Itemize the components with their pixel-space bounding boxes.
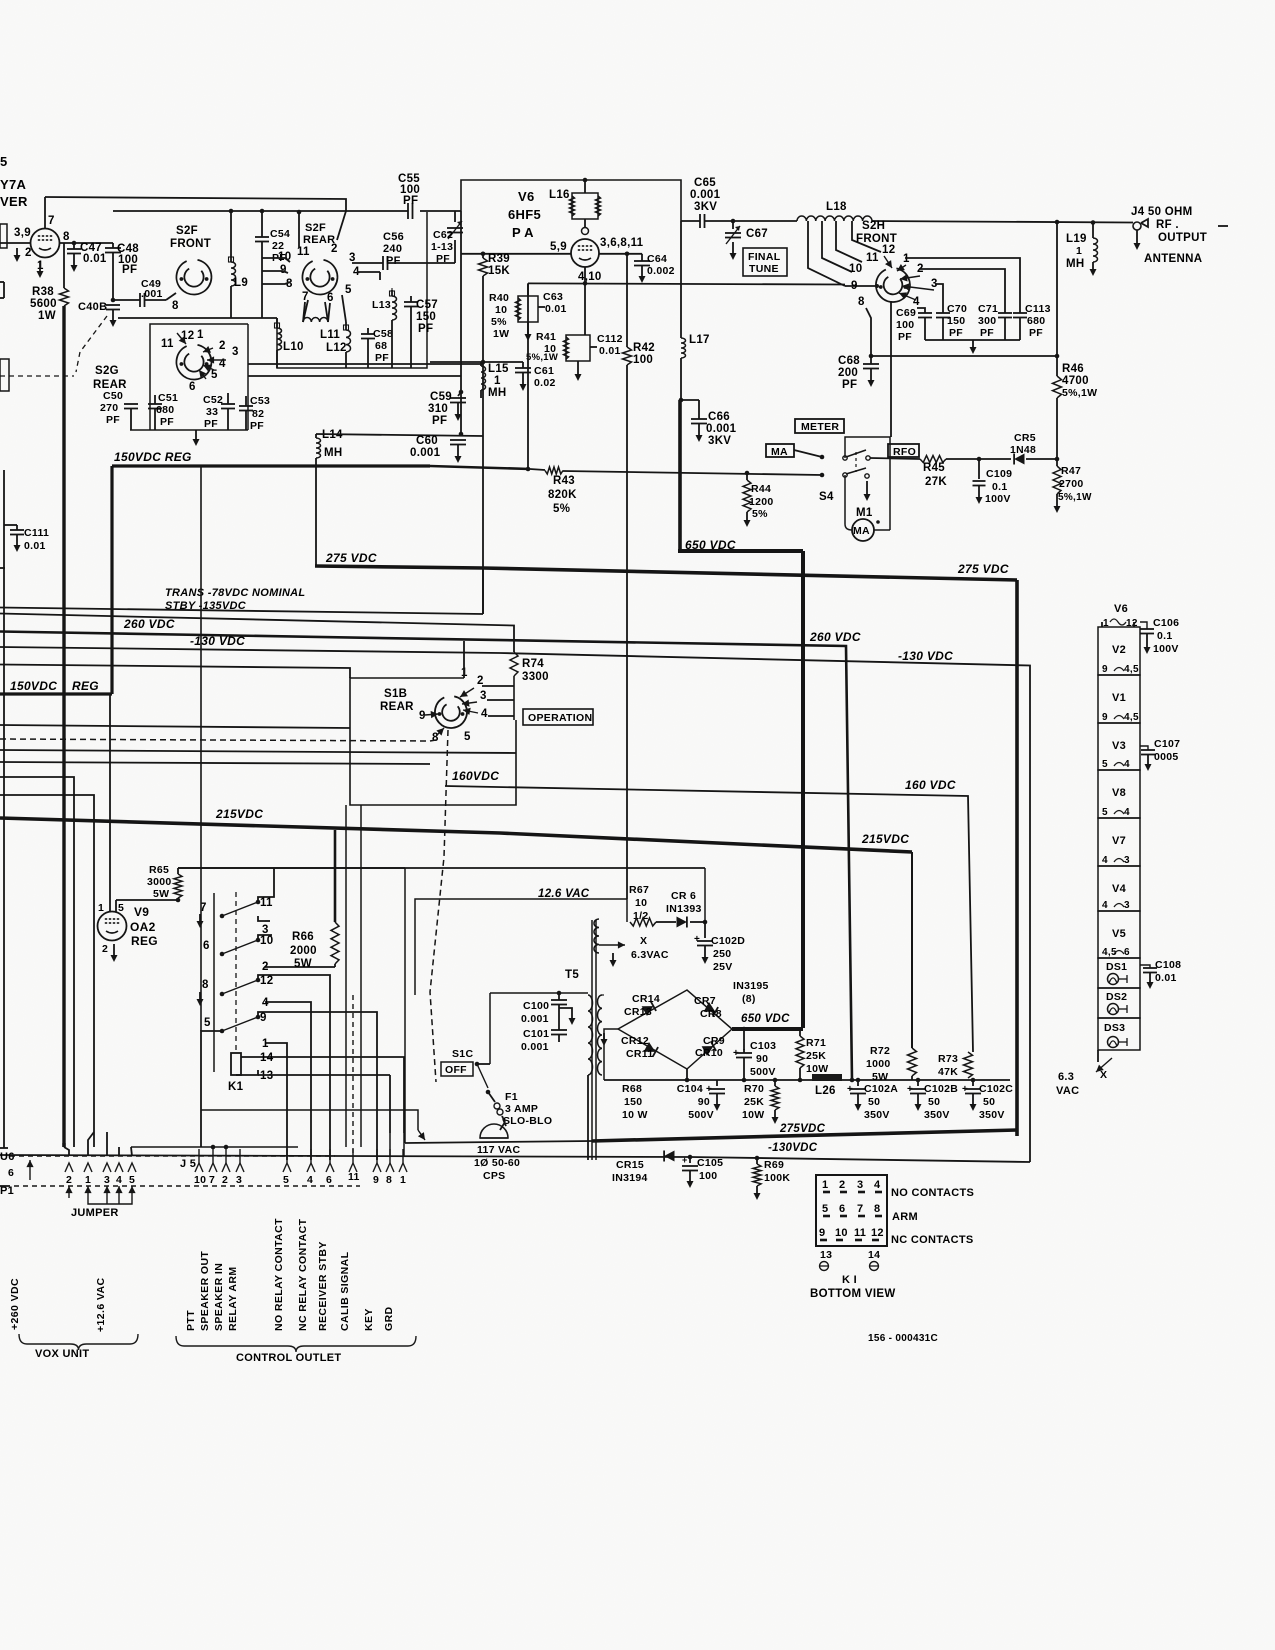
svg-text:100V: 100V — [1153, 643, 1179, 655]
wire 150VDC sense through R43 to lower contact — [530, 469, 545, 470]
svg-text:9: 9 — [819, 1227, 825, 1239]
tube V6 6HF5 PA — [571, 239, 599, 267]
wire bus line 7 — [0, 750, 516, 753]
svg-text:PF: PF — [375, 352, 389, 364]
wire blade5 to J5 pin 10 — [201, 1031, 222, 1147]
svg-text:150VDC REG: 150VDC REG — [114, 450, 192, 464]
svg-text:C50: C50 — [103, 390, 123, 402]
resistor R39 15K — [482, 254, 484, 258]
wire - second bottom edge — [231, 317, 277, 319]
svg-text:6: 6 — [1124, 947, 1130, 958]
svg-text:S2F: S2F — [176, 225, 198, 237]
capacitor C54 22PF — [261, 211, 263, 237]
resistor R73 47K — [964, 1052, 973, 1078]
svg-text:1: 1 — [822, 1179, 828, 1191]
svg-text:5%: 5% — [752, 508, 768, 520]
ground arrow cap bank — [972, 340, 974, 348]
resistor R72 1000 5W — [908, 1048, 917, 1076]
svg-text:5%,1W: 5%,1W — [526, 352, 558, 363]
capacitor C71 300PF — [998, 312, 1012, 314]
capacitor C104 90 500V — [716, 1080, 718, 1086]
capacitor C57 150PF — [410, 296, 412, 302]
svg-text:15K: 15K — [488, 265, 510, 277]
svg-text:C108: C108 — [1155, 959, 1181, 971]
svg-text:L18: L18 — [826, 201, 847, 213]
svg-text:PF: PF — [1029, 327, 1043, 339]
wire C68 node to R46 — [871, 355, 1057, 357]
svg-text:C113: C113 — [1025, 303, 1051, 315]
svg-text:C54: C54 — [270, 228, 290, 240]
svg-text:CR13: CR13 — [624, 1006, 652, 1018]
svg-text:PF: PF — [204, 418, 218, 430]
svg-text:PTT: PTT — [185, 1310, 197, 1331]
svg-text:R70: R70 — [744, 1083, 764, 1095]
svg-text:(8): (8) — [742, 993, 756, 1005]
svg-text:V1: V1 — [1112, 692, 1126, 704]
svg-text:5%: 5% — [553, 503, 570, 515]
svg-text:V3: V3 — [1112, 740, 1126, 752]
svg-text:10 W: 10 W — [622, 1109, 648, 1121]
svg-text:7: 7 — [48, 215, 55, 227]
svg-text:C102A: C102A — [864, 1083, 898, 1095]
svg-text:X: X — [1100, 1069, 1107, 1081]
svg-text:FRONT: FRONT — [170, 238, 211, 250]
svg-text:3 AMP: 3 AMP — [505, 1103, 538, 1115]
wire 150VDC REG lower-left stub — [0, 692, 112, 695]
svg-text:5: 5 — [822, 1203, 828, 1215]
svg-text:PF: PF — [432, 415, 447, 427]
svg-text:100: 100 — [896, 319, 914, 331]
svg-text:1N48: 1N48 — [1010, 445, 1036, 456]
wire - left edge to tube grid — [0, 242, 30, 244]
capacitor C48 100PF — [112, 243, 114, 248]
svg-text:50: 50 — [983, 1096, 995, 1108]
box around V6 PA stage — [461, 180, 681, 221]
wire - cathode branch down to R40 — [527, 283, 529, 296]
svg-text:10W: 10W — [742, 1109, 765, 1121]
svg-text:4: 4 — [1102, 900, 1108, 911]
transformer T5 secondary 6.3V winding — [594, 919, 599, 953]
svg-text:1: 1 — [262, 1038, 269, 1050]
svg-text:10: 10 — [849, 263, 862, 275]
svg-text:-130 VDC: -130 VDC — [898, 649, 953, 663]
svg-text:RF .: RF . — [1156, 219, 1179, 231]
svg-text:NO CONTACTS: NO CONTACTS — [891, 1187, 974, 1199]
capacitor C60 0.001 — [459, 432, 464, 437]
VOX UNIT brace — [19, 1334, 138, 1350]
svg-text:R68: R68 — [622, 1083, 642, 1095]
svg-text:4700: 4700 — [1062, 375, 1089, 387]
svg-text:+260 VDC: +260 VDC — [9, 1278, 21, 1330]
boxed label FINAL TUNE — [743, 248, 787, 276]
pin 7 lead — [44, 197, 46, 228]
variable capacitor C62 1-13PF — [447, 227, 463, 229]
svg-text:C103: C103 — [750, 1040, 776, 1052]
svg-text:V6: V6 — [1114, 603, 1128, 615]
svg-text:13: 13 — [260, 1070, 273, 1082]
wire bundle corner to J5 — [131, 1146, 298, 1148]
svg-text:300: 300 — [978, 315, 996, 327]
rotary switch S2H FRONT — [876, 268, 910, 302]
svg-text:0.1: 0.1 — [1157, 630, 1173, 642]
relay pin 13 wire — [236, 1070, 258, 1075]
svg-text:OPERATION: OPERATION — [528, 712, 592, 724]
resistor R66 2000 5W — [331, 922, 339, 964]
resistor R65 3000 5W — [174, 874, 182, 898]
rotary switch S2F FRONT — [176, 260, 211, 295]
svg-text:5: 5 — [464, 731, 471, 743]
svg-text:MA: MA — [853, 525, 870, 537]
svg-text:9: 9 — [260, 1012, 267, 1024]
svg-text:L26: L26 — [815, 1085, 836, 1097]
jumper bracket — [88, 1198, 132, 1204]
svg-text:3: 3 — [104, 1174, 110, 1186]
svg-text:0005: 0005 — [1154, 751, 1179, 763]
svg-text:S2G: S2G — [95, 365, 119, 377]
wires pins 2,3,4 to right vertical — [482, 685, 514, 687]
svg-text:MH: MH — [1066, 258, 1085, 270]
S2H pin arrows — [884, 256, 892, 268]
svg-text:0.001: 0.001 — [706, 423, 737, 435]
resistor R42 100 — [623, 347, 632, 365]
diode CR6 1N393 — [662, 921, 676, 923]
svg-text:CR8: CR8 — [700, 1008, 722, 1020]
svg-text:MA: MA — [771, 446, 788, 458]
svg-text:11: 11 — [854, 1227, 866, 1239]
svg-text:L16: L16 — [549, 189, 570, 201]
capacitor C102A 50 350V — [857, 1080, 859, 1086]
svg-text:C68: C68 — [838, 355, 860, 367]
svg-text:CR12: CR12 — [621, 1035, 649, 1047]
svg-text:C66: C66 — [708, 411, 730, 423]
svg-text:8: 8 — [202, 979, 209, 991]
svg-text:4: 4 — [1102, 855, 1108, 866]
capacitor C59 310PF — [459, 390, 464, 395]
wire from S2G pins to right — [248, 363, 483, 365]
svg-text:680: 680 — [1027, 315, 1045, 327]
svg-text:8: 8 — [874, 1203, 880, 1215]
svg-text:10: 10 — [495, 304, 507, 316]
svg-text:0.001: 0.001 — [521, 1013, 549, 1025]
svg-text:5W: 5W — [153, 888, 169, 900]
capacitor C107 0.005 — [1140, 746, 1148, 750]
svg-text:68: 68 — [375, 340, 387, 352]
svg-text:SPEAKER IN: SPEAKER IN — [213, 1263, 225, 1331]
svg-text:L15: L15 — [488, 363, 509, 375]
wire bridge left to transformer — [604, 1029, 618, 1080]
svg-text:V4: V4 — [1112, 883, 1127, 895]
wire - V6 box right edge down to 650VDC elbow — [680, 221, 682, 338]
svg-text:C69: C69 — [896, 307, 916, 319]
svg-text:2000: 2000 — [290, 945, 317, 957]
relay K1 bottom view box — [816, 1175, 887, 1246]
svg-text:0.001: 0.001 — [690, 189, 721, 201]
svg-text:CONTROL OUTLET: CONTROL OUTLET — [236, 1352, 341, 1364]
svg-text:4: 4 — [262, 997, 269, 1009]
svg-text:6: 6 — [327, 292, 334, 304]
switch S4 frame — [845, 437, 890, 519]
svg-text:4: 4 — [307, 1174, 313, 1186]
wire below DS3 with 6.3VAC — [1097, 1050, 1099, 1062]
svg-text:+: + — [682, 1155, 688, 1165]
svg-text:L9: L9 — [234, 277, 248, 289]
svg-text:3: 3 — [857, 1179, 863, 1191]
svg-text:1000: 1000 — [866, 1058, 891, 1070]
svg-text:R39: R39 — [488, 253, 510, 265]
svg-text:RFO: RFO — [893, 446, 916, 458]
wire V9 to R65 node — [116, 899, 178, 901]
dashed wire pin5 down to S1C — [430, 730, 448, 1082]
svg-text:TUNE: TUNE — [749, 263, 779, 275]
svg-text:260 VDC: 260 VDC — [809, 630, 861, 644]
svg-text:8: 8 — [172, 300, 179, 312]
svg-text:ANTENNA: ANTENNA — [1144, 253, 1202, 265]
svg-text:1: 1 — [400, 1174, 406, 1186]
capacitor C64 0.002 — [641, 254, 643, 261]
capacitor C47 0.01 with ground — [72, 241, 77, 246]
svg-text:R38: R38 — [32, 286, 54, 298]
diode CR15 1N3194 — [664, 1151, 674, 1162]
svg-text:C104: C104 — [677, 1083, 703, 1095]
resistor R67 — [630, 918, 656, 926]
svg-text:650 VDC: 650 VDC — [741, 1013, 790, 1025]
svg-text:9: 9 — [419, 710, 426, 722]
svg-text:0.02: 0.02 — [534, 377, 556, 389]
svg-text:IN3194: IN3194 — [612, 1172, 648, 1184]
svg-text:JUMPER: JUMPER — [71, 1207, 119, 1219]
relay pin 10 — [258, 935, 272, 940]
transformer T5 primary winding — [588, 995, 593, 1075]
wire C56 to C62 node — [388, 262, 456, 264]
inductor L10 — [276, 318, 278, 328]
svg-text:C71: C71 — [978, 303, 998, 315]
wire pin3 to C70 — [935, 284, 943, 313]
svg-text:+12.6 VAC: +12.6 VAC — [95, 1278, 107, 1332]
svg-text:4: 4 — [874, 1179, 881, 1191]
svg-text:10: 10 — [635, 897, 647, 909]
svg-text:OUTPUT: OUTPUT — [1158, 232, 1207, 244]
tube V5 heater box — [1098, 911, 1140, 958]
svg-text:12: 12 — [871, 1227, 884, 1239]
svg-text:215VDC: 215VDC — [861, 832, 909, 846]
svg-text:J 5: J 5 — [180, 1158, 196, 1170]
svg-text:C59: C59 — [430, 391, 452, 403]
wire R45 to CR5 — [946, 458, 1011, 460]
VOX pin leads from buses — [62, 1143, 65, 1147]
wire pin 1 up to bus — [463, 641, 465, 678]
capacitor C65 0.001 3KV in line — [699, 214, 701, 228]
boxed label MA — [766, 444, 794, 457]
svg-text:3: 3 — [1124, 855, 1130, 866]
svg-text:PF: PF — [949, 327, 963, 339]
svg-text:S1C: S1C — [452, 1048, 473, 1060]
resistor R69 100K — [755, 1156, 760, 1161]
svg-text:NC CONTACTS: NC CONTACTS — [891, 1234, 974, 1246]
inductor L11 under rotary — [303, 318, 328, 323]
svg-text:PF: PF — [122, 264, 137, 276]
svg-text:10: 10 — [260, 935, 273, 947]
svg-text:25K: 25K — [744, 1096, 764, 1108]
wires from S2F rear pins 5,6,7 down — [342, 295, 346, 322]
wire M1 leads — [844, 475, 846, 524]
svg-text:P A: P A — [512, 225, 534, 240]
svg-text:47K: 47K — [938, 1066, 958, 1078]
svg-text:NC RELAY CONTACT: NC RELAY CONTACT — [297, 1218, 309, 1331]
svg-text:0.001: 0.001 — [410, 447, 441, 459]
svg-text:F1: F1 — [505, 1091, 518, 1103]
wire bus line 10 — [0, 795, 94, 1147]
capacitor C56 240PF — [382, 256, 384, 270]
svg-text:R74: R74 — [522, 658, 544, 670]
svg-text:RECEIVER STBY: RECEIVER STBY — [317, 1241, 329, 1331]
wire - pin 8 node — [60, 242, 113, 244]
svg-text:5,9: 5,9 — [550, 241, 567, 253]
svg-text:R69: R69 — [764, 1159, 784, 1171]
resistor R71 25K 10W — [799, 1028, 801, 1036]
svg-text:MH: MH — [488, 387, 507, 399]
svg-text:C102B: C102B — [924, 1083, 958, 1095]
inductor L12 — [345, 322, 347, 330]
svg-text:100V: 100V — [985, 493, 1011, 505]
svg-text:0.01: 0.01 — [1155, 972, 1177, 984]
svg-text:V6: V6 — [518, 189, 535, 204]
svg-text:DS3: DS3 — [1104, 1022, 1125, 1034]
svg-text:2: 2 — [66, 1174, 72, 1186]
relay armature dashed — [235, 892, 237, 1050]
svg-text:5: 5 — [1102, 759, 1108, 770]
hook wires pins 8,9,10 — [262, 258, 290, 262]
svg-text:L19: L19 — [1066, 233, 1087, 245]
svg-text:12: 12 — [882, 244, 895, 256]
svg-text:0.01: 0.01 — [83, 253, 107, 265]
rectifier bridge CR7-CR14 — [618, 990, 732, 1069]
inductor L18 — [797, 216, 872, 221]
transformer T5 HV secondary winding — [597, 995, 602, 1075]
svg-text:L10: L10 — [283, 341, 304, 353]
svg-text:CR10: CR10 — [695, 1047, 723, 1059]
capacitor C51 680PF — [154, 408, 156, 430]
wire pin8 down to C68 node — [866, 308, 871, 356]
svg-text:C57: C57 — [416, 299, 438, 311]
svg-text:1W: 1W — [493, 328, 509, 340]
svg-text:500V: 500V — [750, 1066, 776, 1078]
capacitor C108 0.01 — [1140, 965, 1150, 968]
svg-text:V7: V7 — [1112, 835, 1126, 847]
svg-text:156 - 000431C: 156 - 000431C — [868, 1333, 938, 1344]
svg-text:L13: L13 — [372, 299, 391, 311]
main filter rail — [604, 1079, 1010, 1081]
transformer primary right leads — [587, 1075, 589, 1160]
resistor R74 3300 on S1B feed — [510, 652, 518, 676]
svg-text:6.3VAC: 6.3VAC — [631, 949, 669, 961]
svg-text:9: 9 — [851, 280, 858, 292]
svg-text:2: 2 — [262, 961, 269, 973]
svg-text:3KV: 3KV — [694, 201, 717, 213]
svg-text:PF: PF — [403, 195, 418, 207]
wire cathode sense down to S4 frame — [890, 301, 892, 437]
svg-text:5600: 5600 — [30, 298, 57, 310]
svg-text:150: 150 — [416, 311, 436, 323]
svg-text:10: 10 — [194, 1174, 206, 1186]
svg-text:0.01: 0.01 — [24, 540, 46, 552]
CONTROL OUTLET brace — [176, 1336, 416, 1352]
svg-text:RELAY ARM: RELAY ARM — [227, 1267, 239, 1331]
svg-text:R71: R71 — [806, 1037, 826, 1049]
svg-text:R44: R44 — [751, 483, 771, 495]
wire pin4 to C69 — [917, 308, 925, 313]
svg-text:L17: L17 — [689, 334, 710, 346]
svg-text:2: 2 — [839, 1179, 845, 1191]
svg-text:4: 4 — [481, 708, 488, 720]
svg-text:S4: S4 — [819, 491, 834, 503]
svg-text:R42: R42 — [633, 342, 655, 354]
capacitor C66 0.001 3KV — [679, 398, 684, 403]
svg-text:C105: C105 — [697, 1157, 723, 1169]
svg-text:6: 6 — [8, 1167, 14, 1179]
svg-text:C56: C56 — [383, 231, 404, 243]
svg-text:M1: M1 — [856, 507, 873, 519]
svg-text:6: 6 — [189, 381, 196, 393]
wire bundle verticals below S1B box — [345, 805, 347, 1147]
svg-text:6: 6 — [839, 1203, 845, 1215]
svg-text:K I: K I — [842, 1274, 857, 1286]
svg-text:PF: PF — [418, 323, 433, 335]
wire bus line 9 — [0, 777, 74, 1147]
wire - plate run to C55 and PA grid — [346, 210, 408, 212]
svg-text:8: 8 — [858, 296, 865, 308]
svg-text:-130VDC: -130VDC — [768, 1142, 818, 1154]
svg-text:R46: R46 — [1062, 363, 1084, 375]
svg-text:275 VDC: 275 VDC — [957, 562, 1009, 576]
svg-text:3: 3 — [480, 690, 487, 702]
svg-text:200: 200 — [838, 367, 858, 379]
tube V3 heater box — [1098, 723, 1140, 770]
svg-text:9: 9 — [280, 264, 287, 276]
box around S2G switch — [150, 324, 248, 430]
svg-text:V2: V2 — [1112, 644, 1126, 656]
wire top rail y868 — [178, 867, 705, 869]
resistor R47 2700 5% 1W — [1056, 459, 1058, 466]
svg-text:PF: PF — [250, 420, 264, 432]
svg-text:5: 5 — [211, 369, 218, 381]
svg-text:C102C: C102C — [979, 1083, 1013, 1095]
svg-text:IN3195: IN3195 — [733, 980, 769, 992]
svg-text:CR11: CR11 — [626, 1048, 653, 1060]
svg-text:3: 3 — [232, 346, 239, 358]
svg-text:9: 9 — [373, 1174, 379, 1186]
svg-text:12: 12 — [260, 975, 273, 987]
relay coil K1 — [231, 1053, 241, 1075]
VOX pins 2 1 3 4 5 — [65, 1163, 73, 1172]
svg-text:C67: C67 — [746, 228, 768, 240]
boxed label METER — [795, 419, 844, 433]
svg-text:C100: C100 — [523, 1000, 549, 1012]
dashed wire into pin 8 — [430, 740, 436, 741]
transformer T5 core — [591, 920, 593, 1160]
ground below R41 — [577, 361, 579, 366]
pin 4 wire — [357, 271, 380, 273]
wire bus line 8 — [0, 762, 430, 764]
capacitor C55 100PF — [407, 203, 409, 219]
svg-text:4: 4 — [1124, 807, 1130, 818]
svg-text:5: 5 — [1102, 807, 1108, 818]
wire - top rail of S2F coil bank — [113, 210, 346, 212]
svg-text:0.1: 0.1 — [992, 481, 1008, 493]
svg-text:50: 50 — [928, 1096, 940, 1108]
wire down from 4,10 to R41 — [584, 283, 586, 335]
svg-text:5: 5 — [204, 1017, 211, 1029]
svg-text:27K: 27K — [925, 476, 947, 488]
